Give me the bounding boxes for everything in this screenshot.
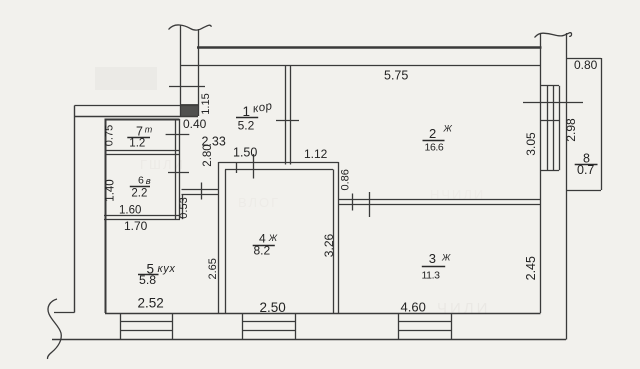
svg-text:кух: кух [158, 263, 176, 275]
svg-text:1.70: 1.70 [124, 219, 148, 233]
svg-text:Ж: Ж [441, 253, 451, 263]
svg-text:0.86: 0.86 [339, 169, 351, 190]
svg-text:ГШЛИ: ГШЛИ [140, 157, 185, 172]
outer top wall [197, 46, 542, 48]
svg-text:8.2: 8.2 [254, 244, 271, 258]
room7 top wall [105, 119, 180, 121]
svg-text:1: 1 [243, 104, 251, 119]
corridor-room2 wall line b [290, 66, 292, 165]
dimension tick kitchen top [201, 183, 203, 200]
svg-text:0.75: 0.75 [104, 125, 116, 146]
svg-text:5.8: 5.8 [139, 273, 156, 287]
window right wall vertical 4 [559, 86, 561, 170]
kitchen window mid line 2 [120, 330, 173, 332]
svg-text:1.12: 1.12 [304, 147, 328, 161]
svg-text:2.65: 2.65 [207, 258, 219, 279]
svg-text:3.26: 3.26 [322, 233, 336, 257]
kitchen window mid line 1 [120, 321, 173, 323]
room7 bottom wall line b [105, 154, 180, 156]
room4 inner top wall [225, 169, 333, 171]
dimension tick room4 top [253, 154, 255, 179]
kitchen top wall upper line [182, 189, 219, 191]
svg-text:2.2: 2.2 [131, 188, 147, 200]
rooms7-6 right wall line b [179, 119, 181, 219]
break squiggle top-right [535, 33, 572, 38]
room6 bottom wall line a [104, 215, 180, 217]
kitchen step wall 0.53 [182, 195, 184, 220]
corridor top wall upper line [75, 105, 199, 107]
inner top wall [181, 65, 541, 67]
svg-text:5.75: 5.75 [384, 69, 408, 83]
break squiggle bottom-left [47, 299, 61, 359]
loggia right wall [601, 58, 603, 190]
kitchen window cap right [172, 313, 174, 340]
kitchen window cap left [120, 313, 122, 340]
bottom outer wall [52, 339, 566, 341]
svg-text:2.98: 2.98 [564, 118, 578, 142]
room4 inner right wall [333, 170, 335, 314]
left outer wall [74, 106, 76, 313]
room4 outer right wall [338, 162, 340, 313]
svg-text:16.6: 16.6 [425, 141, 444, 153]
svg-text:4.60: 4.60 [401, 299, 426, 314]
room4 outer top wall [219, 162, 339, 164]
dimension tick room4 top small [236, 162, 238, 173]
svg-text:1.60: 1.60 [119, 205, 141, 217]
room3 window mid line 2 [399, 330, 451, 332]
svg-text:в: в [146, 176, 151, 187]
svg-text:7: 7 [136, 125, 143, 139]
door tick partition rooms2-3 left [352, 194, 354, 211]
corridor top wall lower line [75, 116, 199, 118]
window right wall top cap [541, 85, 560, 87]
svg-text:ЧИЛИ: ЧИЛИ [437, 300, 490, 317]
room4 window mid line 1 [242, 321, 295, 323]
dimension tick 1.15 [169, 86, 205, 88]
svg-text:11.3: 11.3 [422, 270, 441, 282]
rooms7-6 right wall line a [175, 119, 177, 219]
room4 window mid line 2 [242, 330, 295, 332]
loggia top wall [566, 58, 601, 60]
svg-text:т: т [145, 125, 153, 135]
svg-text:Ж: Ж [268, 233, 278, 243]
kitchen top wall lower line [182, 194, 219, 196]
window right wall bottom cap [541, 170, 560, 172]
svg-text:0.80: 0.80 [574, 58, 598, 72]
svg-text:3: 3 [429, 251, 436, 266]
svg-text:3.05: 3.05 [524, 132, 538, 156]
svg-text:Ж: Ж [443, 124, 453, 134]
svg-text:0.7: 0.7 [577, 163, 594, 177]
loggia bottom wall [566, 190, 601, 192]
svg-text:6: 6 [138, 175, 144, 187]
room4 inner left wall [225, 170, 227, 314]
svg-text:ВЛОГ: ВЛОГ [238, 195, 280, 210]
room6 bottom wall line b [104, 219, 180, 221]
right wall outer line [566, 33, 568, 340]
dimension tick loggia [523, 102, 583, 104]
svg-text:1.40: 1.40 [105, 179, 117, 201]
wall column top-left line b [198, 29, 200, 116]
svg-text:1.15: 1.15 [200, 93, 212, 114]
svg-text:1.50: 1.50 [233, 146, 257, 160]
room3 window cap right [451, 313, 453, 340]
door tick room7 [166, 134, 190, 136]
window right wall middle cap [541, 120, 560, 122]
room7 bottom wall line a [105, 150, 180, 152]
right wall inner line [540, 34, 542, 313]
room4 window cap left [242, 313, 244, 340]
svg-text:5.2: 5.2 [238, 119, 255, 133]
corridor-room2 wall line a [285, 66, 287, 165]
svg-text:2.50: 2.50 [260, 300, 286, 315]
door tick partition rooms2-3 [369, 192, 371, 217]
door tick room6 [168, 172, 189, 174]
window right wall vertical 3 [553, 86, 555, 170]
svg-text:2.45: 2.45 [524, 256, 538, 280]
svg-text:2: 2 [429, 126, 436, 141]
room4 outer left wall [218, 162, 220, 313]
partition rooms2-3 upper line [339, 199, 541, 201]
svg-text:2.52: 2.52 [138, 296, 164, 311]
left wall bottom notch [54, 312, 75, 314]
bottom wall inner line [105, 313, 541, 315]
svg-text:0.40: 0.40 [183, 117, 207, 131]
svg-text:2.80: 2.80 [202, 144, 214, 166]
break squiggle top-left [169, 25, 212, 30]
wall column top-left line a [180, 25, 182, 116]
room3 window mid line 1 [399, 321, 451, 323]
dimension tick corridor-room2 wall [276, 120, 299, 122]
window right wall vertical 2 [547, 86, 549, 170]
svg-text:0.53: 0.53 [178, 197, 190, 218]
room4 window cap right [295, 313, 297, 340]
left inner wall [105, 119, 107, 314]
faint scan blotch top-left [95, 67, 157, 90]
partition rooms2-3 lower line [339, 204, 541, 206]
room3 window cap left [398, 313, 400, 340]
dark wall junction fill [181, 104, 198, 117]
svg-text:1.2: 1.2 [129, 138, 145, 150]
